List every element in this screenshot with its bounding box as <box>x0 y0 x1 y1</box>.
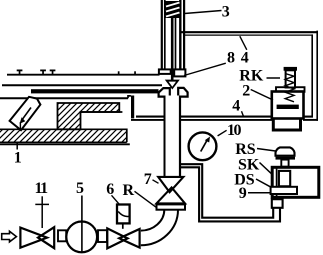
svg-text:2: 2 <box>242 82 250 99</box>
svg-text:9: 9 <box>239 185 247 202</box>
svg-text:3: 3 <box>222 4 230 21</box>
svg-text:1: 1 <box>14 149 22 166</box>
svg-text:11: 11 <box>35 180 49 197</box>
svg-text:8: 8 <box>227 50 235 67</box>
svg-text:4: 4 <box>232 98 240 115</box>
svg-text:5: 5 <box>76 180 84 197</box>
svg-text:R: R <box>123 182 135 199</box>
svg-text:10: 10 <box>227 122 242 139</box>
svg-text:7: 7 <box>144 171 152 188</box>
svg-text:6: 6 <box>106 181 114 198</box>
svg-text:4: 4 <box>241 50 249 67</box>
